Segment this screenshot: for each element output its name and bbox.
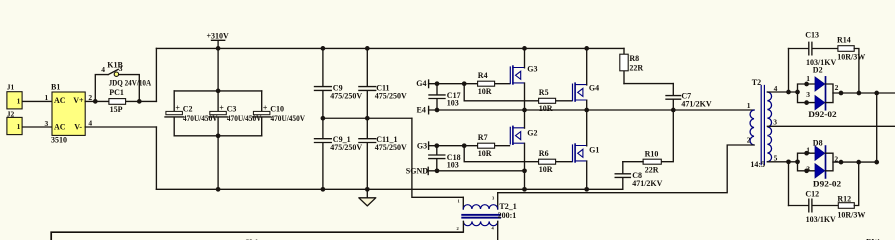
svg-text:G4: G4 — [589, 84, 599, 93]
node C11 mid — [365, 116, 370, 121]
svg-text:22R: 22R — [629, 63, 643, 72]
svg-text:1: 1 — [747, 101, 751, 110]
wire G3 branch to R6 — [464, 146, 572, 162]
transistor G4 (high-side MOSFET) — [573, 83, 600, 101]
transistor G2 (low-side MOSFET) — [510, 126, 537, 144]
svg-text:471/2KV: 471/2KV — [681, 100, 711, 109]
svg-text:R5: R5 — [539, 88, 549, 97]
svg-text:+: + — [263, 103, 268, 112]
resistor R4 10R — [478, 71, 495, 96]
node D2 pin2 — [839, 91, 844, 96]
wire D8 output row — [833, 161, 877, 163]
capacitor C8 471/2KV — [615, 162, 662, 190]
connector J1 — [7, 83, 22, 109]
net port G4 — [416, 79, 428, 88]
node D8 anode bus — [795, 159, 800, 164]
node D2 anode 3 — [804, 100, 809, 105]
svg-text:R7: R7 — [478, 133, 488, 142]
svg-text:475/250V: 475/250V — [375, 91, 407, 100]
svg-text:10R: 10R — [478, 149, 492, 158]
node G4/C17 — [435, 81, 440, 86]
svg-text:G1: G1 — [589, 146, 599, 155]
node C9 mid — [321, 116, 326, 121]
svg-text:D92-02: D92-02 — [813, 180, 841, 189]
svg-text:R4: R4 — [478, 71, 488, 80]
svg-text:+: + — [175, 103, 180, 112]
wire G3 drain to rail — [524, 48, 526, 67]
wire output join vertical — [876, 93, 878, 162]
resistor R6 10R — [539, 149, 556, 174]
svg-text:14:5: 14:5 — [750, 160, 765, 169]
svg-text:10R/3W: 10R/3W — [837, 53, 865, 62]
svg-text:C13: C13 — [805, 31, 819, 40]
capacitor C10 470U/450V — [253, 91, 306, 136]
svg-text:E4: E4 — [417, 106, 426, 115]
svg-text:AC: AC — [54, 122, 66, 131]
node G4 branch — [462, 81, 467, 86]
svg-text:V-: V- — [74, 122, 82, 131]
node D2 anode bus — [795, 90, 800, 95]
transformer T2 core — [761, 86, 764, 165]
node SGND/C18 — [435, 168, 440, 173]
svg-text:R14: R14 — [837, 36, 851, 45]
svg-text:475/250V: 475/250V — [375, 143, 407, 152]
wire T2 pin2 to CT loop — [498, 145, 754, 193]
svg-text:D2: D2 — [813, 66, 823, 75]
svg-text:R8: R8 — [629, 54, 639, 63]
wire divider drop to CT feed — [412, 118, 463, 197]
wire G4 branch to R5 — [464, 84, 572, 101]
svg-text:R10: R10 — [645, 150, 659, 159]
node C9_1 bottom — [321, 187, 326, 192]
svg-text:1: 1 — [17, 122, 21, 131]
wire V+ rise to +310V rail — [155, 48, 157, 101]
dual diode D2 D92-02 — [798, 66, 839, 120]
wire +310V drop to cap bank bus — [217, 48, 219, 91]
svg-text:471/2KV: 471/2KV — [632, 179, 662, 188]
transformer T2 secondary winding — [750, 84, 777, 169]
svg-text:5: 5 — [774, 153, 778, 162]
wire cap bus drop to bottom rail — [217, 136, 219, 190]
connector J2 — [7, 109, 22, 134]
svg-text:3: 3 — [45, 119, 49, 128]
node D8 pin5 C12 tap — [786, 159, 791, 164]
svg-text:AC: AC — [54, 96, 66, 105]
wire bottom ground rail — [156, 188, 622, 190]
wire R12 rise to output — [854, 162, 858, 205]
svg-text:4: 4 — [88, 118, 92, 127]
svg-text:G3: G3 — [527, 65, 537, 74]
node G3 drain rail — [522, 46, 527, 51]
capacitor C11_1 475/250V — [359, 118, 407, 189]
wire SGND row — [428, 170, 524, 172]
svg-text:15P: 15P — [110, 105, 123, 114]
net port E4 — [417, 106, 429, 115]
svg-text:3: 3 — [806, 90, 810, 99]
node on bottom rail — [216, 187, 221, 192]
node C11 top — [365, 46, 370, 51]
svg-text:10R/3W: 10R/3W — [837, 210, 865, 219]
power port +310V — [207, 31, 230, 48]
svg-text:3: 3 — [773, 118, 777, 127]
resistor R8 22R — [620, 48, 644, 83]
capacitor C9_1 475/250V — [315, 118, 363, 189]
svg-text:22R: 22R — [645, 165, 659, 174]
resistor R5 10R — [539, 88, 556, 113]
capacitor C13 103/1KV — [789, 31, 838, 67]
resistor R14 10R/3W — [837, 36, 865, 62]
ground symbol — [359, 189, 376, 206]
node D8 anode 3 — [804, 168, 809, 173]
svg-text:475/250V: 475/250V — [330, 91, 362, 100]
svg-text:3510: 3510 — [51, 136, 67, 145]
resistor R12 10R/3W — [837, 194, 865, 219]
wire E4 / bridge output row — [429, 109, 754, 111]
node G3 source on output line — [522, 108, 527, 113]
svg-text:1: 1 — [45, 93, 49, 102]
wire T2 pin4 row — [767, 91, 797, 93]
resistor R10 22R — [643, 150, 661, 175]
svg-text:2: 2 — [835, 83, 839, 92]
wire G1 source to bottom rail — [586, 161, 588, 189]
node G3 branch — [462, 143, 467, 148]
node G4 drain rail — [584, 46, 589, 51]
capacitor C12 103/1KV — [789, 190, 839, 224]
capacitor C17 103 — [429, 84, 461, 110]
svg-text:SGND: SGND — [406, 166, 428, 175]
svg-text:V+: V+ — [73, 96, 84, 105]
svg-text:4: 4 — [101, 65, 105, 74]
bridge rectifier B1 3510 — [45, 82, 93, 144]
transistor G3 (high-side MOSFET) — [510, 65, 537, 84]
svg-text:G4: G4 — [416, 79, 426, 88]
wire B1 V- output row — [85, 126, 156, 128]
node C7 on output line — [671, 108, 676, 113]
svg-text:R6: R6 — [539, 149, 549, 158]
node output join bottom — [874, 160, 879, 165]
svg-text:T2: T2 — [752, 78, 761, 87]
wire J2 to B1 pin3 — [23, 126, 52, 128]
resistor PC1 15P — [109, 88, 126, 114]
net port G3 — [417, 141, 429, 150]
wire T2 pin5 row — [767, 161, 797, 163]
current transformer T2_1 200:1 — [457, 193, 517, 240]
svg-text:103: 103 — [447, 161, 459, 170]
svg-text:T2_1: T2_1 — [499, 202, 516, 211]
wire C12 drop — [788, 162, 790, 206]
svg-text:475/250V: 475/250V — [330, 143, 362, 152]
wire V- drop to bottom rail — [155, 127, 157, 189]
node D8 pin2 — [839, 160, 844, 165]
svg-text:G2: G2 — [527, 128, 537, 137]
wire G2 source to bottom rail — [524, 143, 526, 189]
wire snubber drop to R10 — [661, 110, 673, 162]
svg-text:103: 103 — [447, 98, 459, 107]
net port SGND — [406, 166, 428, 175]
wire T2 pin3 center tap to right edge — [767, 125, 895, 127]
node relay left — [93, 99, 98, 104]
svg-text:C10: C10 — [270, 104, 284, 113]
capacitor C3 470U/450V — [209, 91, 262, 136]
wire G3 net row — [429, 145, 510, 147]
node R14 join — [857, 91, 862, 96]
wire G2 drain to output — [524, 110, 526, 128]
node R12 join — [856, 160, 861, 165]
node G2 source SGND — [522, 168, 527, 173]
capacitor C11 475/250V — [359, 48, 407, 118]
node output join top — [874, 91, 879, 96]
svg-text:C2: C2 — [183, 104, 193, 113]
svg-text:200:1: 200:1 — [498, 211, 517, 220]
node D2 anode 1 — [804, 82, 809, 87]
wire: top +310V rail — [156, 47, 624, 49]
svg-text:J1: J1 — [7, 83, 15, 92]
wire G4 net row — [429, 83, 510, 85]
wire R14 drop to output — [854, 49, 859, 94]
wire D2 output row — [833, 92, 895, 94]
dual diode D8 D92-02 — [798, 138, 842, 188]
wire G4 drain to rail — [586, 48, 588, 85]
svg-text:B1: B1 — [51, 82, 60, 91]
transformer T2 primary winding — [747, 78, 761, 145]
svg-text:G3: G3 — [417, 141, 427, 150]
svg-text:10R: 10R — [539, 104, 553, 113]
capacitor C7 471/2KV — [666, 84, 712, 110]
svg-text:470U/450V: 470U/450V — [271, 114, 306, 123]
capacitor C9 475/250V — [315, 48, 363, 118]
svg-text:1: 1 — [17, 96, 21, 105]
node junction on +310V rail — [216, 46, 221, 51]
svg-text:JDQ 24V/10A: JDQ 24V/10A — [109, 79, 152, 88]
node G4 source on output line — [584, 108, 589, 113]
relay contact K1B — [95, 61, 151, 102]
node D8 anode 1 — [804, 151, 809, 156]
node relay right — [137, 99, 142, 104]
node G3/C18 — [434, 143, 439, 148]
wire cap bank top bus — [174, 90, 262, 92]
node bottom bus center — [216, 133, 221, 138]
svg-text:C3: C3 — [227, 104, 237, 113]
node G1 source rail — [584, 187, 589, 192]
node E4/C17 — [435, 108, 440, 113]
wire B1 V+ output row — [85, 100, 156, 102]
svg-text:10R: 10R — [539, 165, 553, 174]
svg-text:PC1: PC1 — [109, 88, 124, 97]
svg-text:3: 3 — [119, 64, 123, 73]
capacitor C2 470U/450V — [165, 91, 218, 136]
capacitor C18 103 — [429, 146, 461, 171]
wire G1 drain to output — [586, 110, 588, 146]
bottom control block outline — [51, 232, 463, 240]
wire G4 source to output — [586, 100, 588, 110]
svg-text:+: + — [219, 103, 224, 112]
svg-text:R12: R12 — [837, 194, 851, 203]
node D2 pin4 C13 tap — [786, 90, 791, 95]
transistor G1 (low-side MOSFET) — [573, 144, 600, 162]
svg-text:D92-02: D92-02 — [808, 110, 836, 119]
svg-text:103/1KV: 103/1KV — [806, 215, 836, 224]
node C9 top — [321, 46, 326, 51]
svg-text:+310V: +310V — [207, 31, 230, 40]
node C11_1 bottom / ground tap — [365, 187, 370, 192]
resistor R7 10R — [478, 133, 495, 158]
wire R8 to C7 — [624, 83, 673, 85]
wire J1 to B1 pin1 — [23, 100, 52, 102]
svg-text:D8: D8 — [813, 138, 823, 147]
node cap bus center — [216, 89, 221, 94]
svg-text:C12: C12 — [805, 190, 819, 199]
wire cap bank bottom bus — [174, 135, 262, 137]
wire capacitor divider mid line — [323, 117, 412, 119]
wire C13 drop — [788, 49, 790, 93]
wire C8 to R10 — [623, 161, 643, 163]
wire G3 source to output — [524, 83, 526, 110]
node G2 source rail — [522, 187, 527, 192]
svg-text:10R: 10R — [478, 87, 492, 96]
